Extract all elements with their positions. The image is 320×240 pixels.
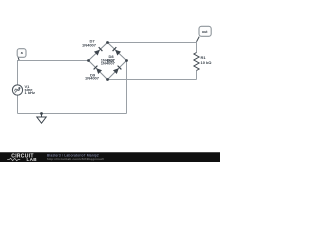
junction dot bridge left vertex bbox=[87, 59, 90, 62]
node badge out box bbox=[199, 26, 211, 36]
svg-text:http://circuitlab.com/c6rf4bqg: http://circuitlab.com/c6rf4bqgmnu2/ bbox=[47, 157, 104, 161]
wire right AC vertical (bottom corner up to bridge right vertex) bbox=[126, 61, 128, 114]
watermark CircuitLab logo bbox=[7, 153, 37, 162]
watermark footer bar bbox=[0, 152, 220, 162]
resistor R1 zigzag bbox=[194, 53, 199, 71]
voltage source V1 inner sine+arrow symbol bbox=[14, 88, 20, 93]
diode D7 cathode bar bbox=[99, 47, 103, 51]
wire left vertical lower (V1 bottom to corner) bbox=[17, 95, 19, 114]
svg-text:LAB: LAB bbox=[27, 157, 38, 162]
svg-text:out: out bbox=[202, 30, 208, 34]
diode D7 triangle (left vertex to top vertex) bbox=[94, 50, 100, 56]
wire left vertical upper (corner to V1 top) bbox=[17, 60, 19, 85]
svg-text:1N4007: 1N4007 bbox=[85, 76, 100, 81]
svg-text:1 kHz: 1 kHz bbox=[25, 90, 35, 95]
diode D10 triangle (bottom vertex to right vertex) bbox=[113, 68, 119, 74]
diode D9 triangle (bottom vertex to left vertex) bbox=[96, 68, 102, 74]
label D7 bbox=[82, 39, 97, 48]
node badge a box bbox=[17, 49, 26, 58]
wire DC+ top horizontal (bridge top vertex to R1 corner) bbox=[108, 42, 197, 44]
wire R1 bottom lead bbox=[196, 71, 198, 80]
label D10 (overlapping centre) bbox=[101, 58, 116, 66]
svg-text:1N4007: 1N4007 bbox=[82, 43, 97, 48]
label R1 value bbox=[201, 55, 213, 65]
diode D9 cathode bar bbox=[94, 66, 98, 70]
label D9 bbox=[85, 73, 100, 81]
label V1 value bbox=[25, 84, 35, 95]
junction dot bridge bottom vertex bbox=[106, 78, 109, 81]
ground symbol bbox=[37, 114, 46, 124]
svg-text:10 kΩ: 10 kΩ bbox=[201, 60, 213, 65]
diode D8 triangle (right vertex to top vertex) bbox=[115, 50, 121, 56]
diode D10 cathode bar bbox=[118, 66, 122, 70]
node badge out flag line bbox=[197, 37, 200, 42]
svg-text:1N4007: 1N4007 bbox=[101, 60, 116, 65]
wire bottom horizontal bbox=[18, 113, 127, 115]
node badge a flag line bbox=[18, 57, 19, 60]
ground junction dot bbox=[40, 112, 43, 115]
wire DC- horizontal (R1 bottom back to bridge bottom vertex) bbox=[108, 79, 197, 81]
diode D8 cathode bar bbox=[113, 47, 117, 51]
junction dot bridge top vertex bbox=[106, 41, 109, 44]
wire top-left horizontal (node a to bridge left vertex) bbox=[18, 60, 89, 62]
junction dot bridge right vertex bbox=[125, 59, 128, 62]
bridge diamond edges bbox=[89, 43, 127, 80]
voltage source V1 circle bbox=[12, 85, 22, 95]
wire R1 top lead bbox=[196, 42, 198, 53]
label D8 (overlapping centre) bbox=[101, 54, 116, 62]
